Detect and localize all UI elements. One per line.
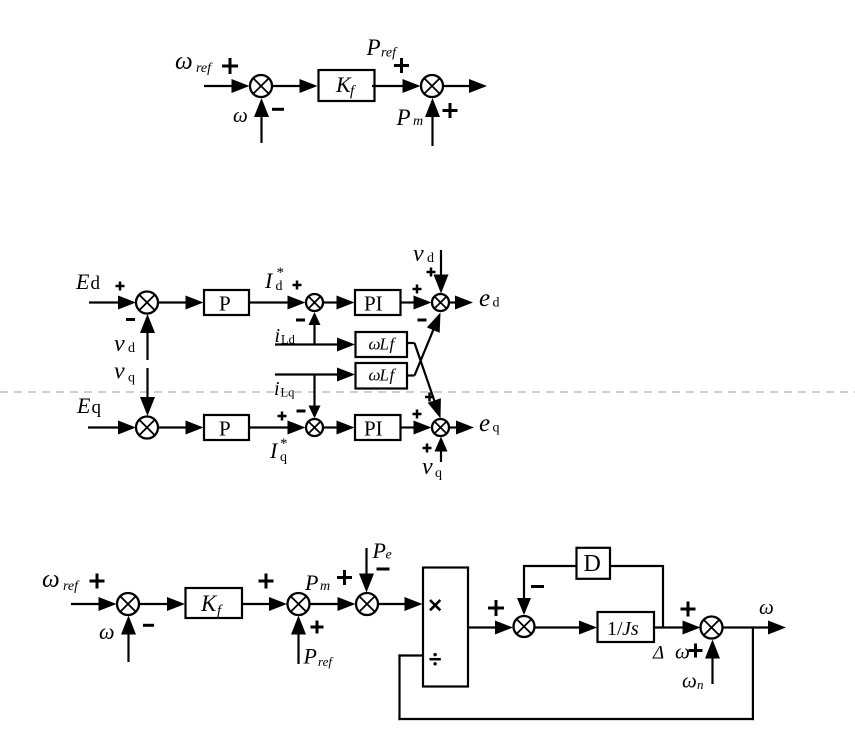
svg-text:P: P [366,35,381,60]
svg-text:ref: ref [63,579,80,594]
svg-text:P: P [396,105,411,130]
minus sign at cross-coupling input of Sd3 [418,319,427,322]
summing junction Sd2 [306,294,323,311]
wire S1 to block Kf [272,85,302,87]
summing junction Sb2 [288,593,310,615]
wire omega_n up into Sb5 [711,657,713,685]
wire v_q down into Sq1 [146,368,148,399]
wire i_Ld up into Sd2 [313,323,315,344]
block Kf (bottom) [186,588,243,618]
block multiplier-divider [423,568,468,687]
wire block P to summer Sq2 [249,426,290,428]
block omega-Lf lower (q-axis decoupling) [356,363,408,389]
plus sign at Sb2 output into Sb3 [337,576,352,579]
svg-text:v: v [114,359,125,385]
svg-text:L: L [379,335,389,354]
summing junction Sb1 [117,593,139,615]
block 1/Js (inertia) [598,612,655,642]
cross-coupling wire from upper omega-Lf down into Sq3 [407,342,415,344]
block P (d-axis) [204,290,249,315]
svg-text:P: P [303,644,317,669]
wire i_Ld into upper block omega-Lf [275,343,339,345]
block D (damping) [577,548,611,579]
svg-text:v: v [422,454,433,480]
summing junction Sd3 [432,294,449,311]
plus sign at PI output into Sq3 [413,413,422,416]
summing junction Sb3 [356,593,378,615]
summing junction Sq1 [136,417,158,439]
svg-text:ref: ref [381,46,398,61]
svg-text:q: q [92,397,102,418]
minus sign at P_e input of Sb3 [377,568,390,571]
block PI (q-axis) [355,415,401,440]
svg-text:ω: ω [675,640,690,664]
plus sign at Sb4 input [488,607,504,610]
plus sign at Sb5 input from 1/Js [681,608,696,611]
svg-text:P: P [372,538,386,563]
svg-text:P: P [219,292,231,316]
plus sign at E_d input of Sd1 [116,285,125,288]
plus sign at P_m input of S2 [443,109,458,112]
output wire omega with junction to feedback [723,626,755,628]
wire i_Lq down into Sq2 [313,375,315,408]
svg-text:L: L [379,366,389,385]
block P (q-axis) [204,415,249,440]
plus sign at Kf output into Sb2 [259,580,274,583]
svg-text:ω: ω [175,48,193,75]
svg-text:1/: 1/ [607,618,623,640]
summing junction S1 (top) [250,75,272,97]
summing junction Sb5 [701,617,723,639]
minus sign at i_Ld input of Sd2 [296,319,305,322]
svg-text:e: e [386,548,392,563]
svg-text:q: q [493,421,500,436]
wire v_d up into Sd1 [146,331,148,360]
plus sign at v_d input of Sd3 [427,271,436,274]
svg-text:d: d [91,273,101,294]
wire from block D into Sb4 (left feedback branch) [524,565,577,567]
minus sign at D feedback input of Sb4 [531,585,544,588]
wire omega_ref into summer S1 [204,85,234,87]
summing junction Sq3 [432,419,449,436]
wire PI to summer Sq3 [401,426,416,428]
plus sign at P_ref input of S2 [394,64,409,67]
output wire e_q [449,426,458,428]
svg-text:d: d [493,296,500,311]
svg-text:m: m [413,114,423,129]
svg-text:m: m [320,579,330,594]
svg-text:d: d [276,279,283,294]
svg-text:d: d [128,341,135,356]
summing junction S2 (top) [421,75,443,97]
feedback wire from omega output around to divider input [752,628,754,721]
output wire of top diagram [443,85,471,87]
dashed separator line between d-axis and q-axis sections [0,391,855,393]
svg-text:ω: ω [42,566,60,593]
svg-text:d: d [427,251,434,266]
wire v_d down into Sd3 [440,250,442,277]
svg-text:i: i [274,378,280,400]
svg-text:ref: ref [196,61,213,76]
wire Sd1 to block P (d-axis) [158,301,188,303]
wire 1/Js to summer Sb5 [654,626,685,628]
svg-text:E: E [75,269,90,294]
wire Sb1 to block Kf (bottom) [139,603,169,605]
svg-text:PI: PI [364,417,383,441]
svg-text:P: P [219,417,231,441]
minus sign at v_d input of Sd1 [126,318,135,321]
wire Sb4 to block 1/Js [535,626,582,628]
cross-coupling wire from lower omega-Lf up into Sd3 [407,374,415,376]
wire Kf to summer S2 [372,85,405,87]
wire block P to summer Sd2 [249,301,290,303]
plus sign at I_d input of Sd2 [293,284,302,287]
summing junction Sb4 [514,616,535,637]
plus sign at v_q input of Sq3 [423,447,432,450]
svg-text:ω: ω [233,103,248,127]
minus sign at omega input of Sb1 [143,624,154,627]
output wire e_d [449,301,457,303]
wire P_m up into S2 [431,115,433,146]
wire PI to summer Sd3 [401,301,416,303]
svg-text:e: e [479,410,490,437]
plus sign at P_ref input of Sb2 [311,626,324,629]
svg-text:K: K [200,591,218,616]
wire Sb3 to multiplier-divider block [378,603,407,605]
wire Sd2 to block PI (d-axis) [323,301,339,303]
svg-text:q: q [128,371,135,386]
svg-text:ω: ω [759,595,774,619]
wire Sb2 to summer Sb3 [310,603,340,605]
wire v_q up into Sq3 [440,450,442,463]
minus sign at i_Lq input of Sq2 [297,410,306,413]
svg-text:ref: ref [318,654,334,669]
wire omega up into Sb1 [127,633,129,663]
svg-text:q: q [435,466,442,481]
wire Kf to summer Sb2 [242,603,271,605]
svg-text:*: * [277,265,285,281]
svg-text:E: E [76,393,91,418]
block Kf (top) [319,70,375,101]
plus sign at PI output into Sd3 [413,288,422,291]
wire i_Lq into lower block omega-Lf [275,373,339,375]
svg-text:PI: PI [364,292,383,316]
svg-text:q: q [280,450,287,465]
svg-text:Js: Js [622,618,639,640]
svg-text:Lq: Lq [281,386,296,400]
plus sign at Delta-omega input annotation [689,649,703,652]
summing junction Sq2 [306,419,323,436]
svg-text:P: P [304,570,318,595]
svg-text:*: * [280,436,288,452]
svg-text:ω: ω [682,669,697,693]
wire Sq1 to block P (q-axis) [158,426,188,428]
wire omega_ref into summer Sb1 [71,603,101,605]
block PI (d-axis) [355,290,401,315]
svg-text:e: e [479,285,490,312]
summing junction Sd1 [136,292,158,314]
svg-text:v: v [413,241,424,267]
svg-text:n: n [697,677,704,692]
wire P_e down into Sb3 [365,548,367,576]
svg-text:Δ: Δ [652,643,664,664]
wire P_ref up into Sb2 [297,633,299,665]
wire Sq2 to block PI (q-axis) [323,426,339,428]
wire E_q into summer Sq1 [88,426,120,428]
plus sign at omega_ref input of S1 [222,65,238,68]
svg-text:v: v [114,331,125,357]
wire omega up into S1 [260,115,262,143]
wire block output to summer Sb4 [468,626,497,628]
plus sign at omega_ref input of Sb1 [90,580,105,583]
wire E_d into summer Sd1 [89,301,120,303]
minus sign at omega feedback input of S1 [272,108,284,111]
wire tap from 1/Js output wire into block D (right feedback branch) [610,565,663,567]
block omega-Lf upper (d-axis decoupling) [356,332,408,357]
plus sign at I_q input of Sq2 [278,415,287,418]
svg-text:ω: ω [99,619,115,644]
plus sign at cross-coupling input of Sq3 [425,396,434,399]
svg-text:D: D [584,551,601,577]
